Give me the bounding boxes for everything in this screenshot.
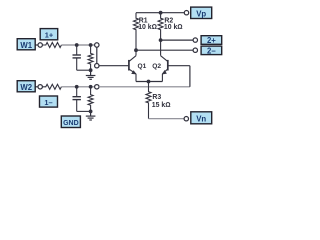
wire: W2 RC node run (gray) (61, 86, 94, 88)
svg-text:Q1: Q1 (138, 63, 147, 70)
connector box W2 (17, 81, 35, 92)
svg-text:15 kΩ: 15 kΩ (152, 102, 171, 109)
terminal: W1 jumper top circle (95, 43, 99, 47)
resistor R2 10 k (158, 13, 163, 56)
wire: to Q2 base (168, 65, 190, 67)
node: W2 ground junction (89, 110, 93, 114)
transistor Q2 (161, 56, 168, 82)
svg-text:1+: 1+ (45, 31, 54, 40)
series resistor (W2 path) (42, 84, 61, 89)
wire: 2- output (136, 49, 193, 51)
wire: long gray wire W2 to Q2 base corner (99, 86, 190, 88)
svg-text:R3: R3 (152, 94, 161, 101)
resistor R3 15 k (146, 82, 151, 119)
wire: R3 to Vn (149, 118, 185, 120)
shunt resistor (W2) (88, 87, 93, 112)
connector box GND (61, 116, 80, 128)
node: Q2 collector to 2+ junction (159, 38, 163, 42)
transistor Q1 (129, 56, 136, 82)
node: tail junction (147, 80, 151, 84)
connector box Vn (191, 112, 212, 124)
wire: jumper vertical to Q1 base level (96, 47, 98, 64)
node: W1 ground junction (89, 68, 93, 72)
svg-text:Q2: Q2 (152, 63, 161, 70)
svg-text:2–: 2– (207, 46, 216, 55)
wire: W2 box stub to terminal (35, 86, 38, 88)
terminal: W1 jumper bottom circle (95, 63, 99, 67)
capacitor C (W2 shunt) (76, 87, 78, 97)
svg-text:1–: 1– (44, 98, 52, 107)
capacitor C (W1 shunt) (76, 45, 78, 55)
terminal W1 open circle (38, 43, 42, 47)
connector box W1 (17, 39, 35, 50)
ground (W2 network) (86, 111, 96, 120)
wire: 2+ output (161, 39, 194, 41)
shunt resistor (W1) (88, 45, 93, 70)
connector box 1+ (40, 29, 58, 40)
svg-text:10 kΩ: 10 kΩ (138, 24, 157, 31)
node: Q1 collector to 2- junction (134, 48, 138, 52)
connector box 2- (201, 46, 222, 55)
node: W1 shunt resistor top junction (89, 43, 93, 47)
wire: vertical up to Q2 base (189, 66, 191, 87)
svg-text:GND: GND (63, 120, 79, 127)
connector box 2+ (201, 36, 222, 45)
node: W1 cap junction (75, 43, 79, 47)
ground (W1 network) (86, 70, 96, 79)
connector box Vp (191, 7, 212, 18)
terminal: Vn circle (184, 117, 188, 121)
wire: W1 RC node run (gray) (61, 44, 94, 46)
svg-text:W1: W1 (20, 41, 32, 50)
terminal: W2 output circle (95, 85, 99, 89)
svg-text:Vn: Vn (196, 114, 206, 123)
node: W2 cap junction (75, 85, 79, 89)
svg-text:W2: W2 (20, 83, 32, 92)
node: R2 top junction (159, 11, 163, 15)
wire: W1 box stub to terminal (35, 44, 38, 46)
node: W2 shunt resistor top junction (89, 85, 93, 89)
terminal W2 open circle (38, 85, 42, 89)
wire: Vp top rail (136, 12, 184, 14)
wire: jumper to Q1 base (99, 65, 128, 67)
terminal: 2+ circle (193, 38, 197, 42)
wire: W1 cap bottom to shunt resistor bottom (77, 69, 91, 71)
svg-text:2+: 2+ (207, 36, 216, 45)
connector box 1- (40, 96, 58, 107)
terminal: 2- circle (193, 48, 197, 52)
wire: emitter bus (136, 81, 162, 83)
resistor R1 10 k (134, 13, 139, 56)
svg-text:Vp: Vp (196, 9, 206, 18)
svg-text:10 kΩ: 10 kΩ (164, 24, 183, 31)
terminal: Vp circle (184, 11, 188, 15)
wire: W2 cap bottom to shunt resistor bottom (77, 110, 91, 112)
series resistor (W1 path) (42, 43, 61, 48)
